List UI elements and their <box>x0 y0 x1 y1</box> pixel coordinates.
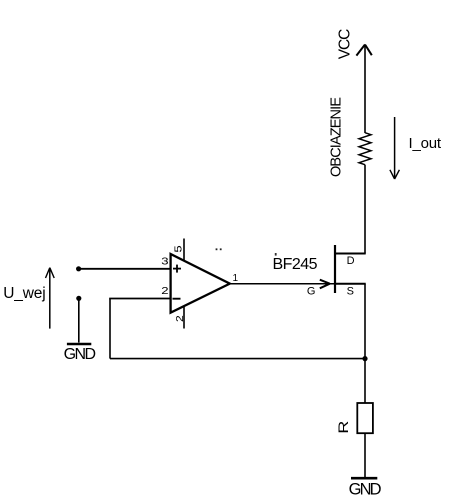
op-amp minus sign <box>173 298 181 300</box>
op-amp pin 2 bottom wire <box>183 307 185 329</box>
svg-text:3: 3 <box>161 255 169 267</box>
op-amp U1 <box>171 254 230 313</box>
wire non-inverting input <box>79 268 170 270</box>
svg-text:2: 2 <box>174 315 185 322</box>
resistor R1 body <box>357 403 373 433</box>
node junction dot <box>362 356 367 361</box>
ground bottom <box>351 477 377 480</box>
svg-text:G: G <box>307 285 316 297</box>
op-amp plus sign <box>173 265 181 273</box>
resistor OBCIAZENIE <box>359 133 371 165</box>
svg-text:2: 2 <box>161 284 168 296</box>
svg-text:U_wej: U_wej <box>3 285 46 302</box>
node input + terminal dot <box>76 266 81 271</box>
svg-text:5: 5 <box>172 245 184 253</box>
svg-text:VCC: VCC <box>337 29 354 60</box>
wire inverting input <box>109 298 170 300</box>
svg-text:GND: GND <box>349 480 382 497</box>
transistor Q1 BF245 <box>335 245 366 293</box>
svg-text:I_out: I_out <box>409 135 442 152</box>
artifact tick above BF245 <box>275 253 277 256</box>
wire resistor to drain <box>364 165 366 254</box>
svg-text:1: 1 <box>233 273 239 284</box>
wire source down <box>364 284 366 403</box>
ground left <box>67 343 91 345</box>
wire opamp output to gate <box>230 283 334 285</box>
wire feedback horizontal <box>110 358 365 360</box>
wire input to ground <box>78 298 80 342</box>
svg-text:GND: GND <box>64 346 97 363</box>
svg-text:D: D <box>347 255 355 267</box>
svg-text:OBCIAZENIE: OBCIAZENIE <box>328 97 344 177</box>
svg-text:S: S <box>347 285 354 297</box>
svg-text:R: R <box>336 421 352 434</box>
wire resistor to ground <box>364 433 366 477</box>
current arrow I_out <box>390 117 400 179</box>
node VCC arrow <box>356 45 371 134</box>
node input - terminal dot <box>76 296 81 301</box>
gate arrowhead <box>320 280 330 289</box>
wire feedback vertical <box>109 299 111 359</box>
op-amp designator artifact dots <box>216 248 218 250</box>
source U_wej arrow <box>46 268 55 329</box>
svg-text:BF245: BF245 <box>273 256 318 273</box>
op-amp pin 5 wire <box>183 239 185 261</box>
